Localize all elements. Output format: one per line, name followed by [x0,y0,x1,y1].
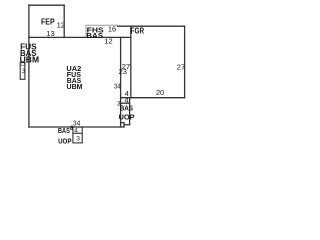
wire main top [29,36,131,38]
wire bump step [124,124,130,126]
wire FGR bottom [121,97,185,99]
svg-text:UBM: UBM [67,82,83,91]
svg-text:3: 3 [76,136,80,143]
svg-text:12: 12 [104,36,112,45]
svg-text:34: 34 [73,119,80,128]
svg-text:34: 34 [114,82,121,91]
wire FEP top [29,4,64,6]
svg-text:FEP: FEP [41,17,55,27]
svg-text:BAS: BAS [86,31,103,40]
wire FEP right [63,5,65,37]
svg-text:27: 27 [177,62,185,71]
svg-text:23: 23 [119,67,127,76]
wire inner right wall [120,37,122,127]
wire main bottom [29,126,124,128]
wire bottom stoop divider [73,132,82,134]
left stoop box [20,62,25,79]
svg-text:20: 20 [156,88,164,97]
wire FGR right wall [184,26,186,98]
wire FGR left wall [130,26,132,98]
bottom stoop box [73,127,82,143]
svg-text:BAS: BAS [58,126,70,135]
wire bump right [129,98,131,125]
svg-text:FGR: FGR [131,26,145,35]
svg-text:BAS: BAS [120,103,133,112]
svg-text:13: 13 [46,29,54,38]
wire left wall [28,5,30,127]
svg-text:16: 16 [108,25,116,34]
svg-text:3: 3 [22,68,26,75]
wire upper right top [118,25,185,27]
svg-text:12: 12 [57,21,65,30]
wire bump divider [121,102,130,104]
svg-text:4: 4 [74,127,78,134]
svg-text:UOP: UOP [58,136,71,145]
svg-text:UOP: UOP [119,112,135,121]
wire bottom-right notch [121,123,124,127]
faint FHS box [86,25,118,37]
